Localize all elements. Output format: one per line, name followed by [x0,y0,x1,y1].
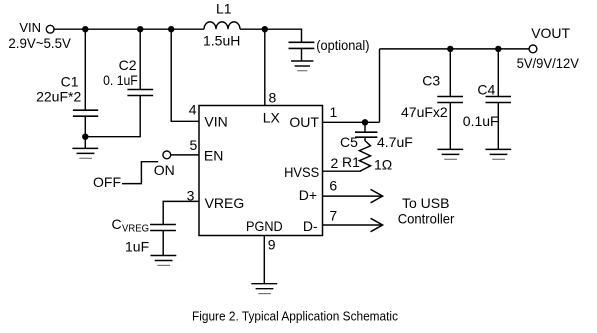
svg-text:1uF: 1uF [125,238,149,254]
wire EN [170,154,199,156]
svg-text:1Ω: 1Ω [374,156,392,172]
svg-text:OFF: OFF [93,174,121,190]
svg-text:VOUT: VOUT [531,25,570,41]
junction rail / C4 [495,46,501,52]
wire L1 to LX node [240,28,265,30]
wire C1 bottom to C2 bottom [85,96,140,137]
svg-text:VREG: VREG [205,195,245,211]
junction LX node [262,26,268,32]
junction OUT / C5 [362,119,368,125]
svg-text:8: 8 [269,89,277,105]
wire rail to C3 [449,49,451,97]
junction C1/C2 bottom [82,134,88,140]
ground C4 [485,149,511,159]
svg-text:5V/9V/12V: 5V/9V/12V [517,55,580,71]
capacitor C5 [355,122,377,137]
capacitor optional [289,42,315,48]
svg-text:9: 9 [268,236,276,252]
wire HVSS pin 2 [323,170,362,172]
wire D- arrow [323,218,383,231]
wire VREG to CVREG [163,201,199,224]
svg-text:0. 1uF: 0. 1uF [103,72,138,88]
svg-text:5: 5 [190,137,198,153]
capacitor C4 [486,97,512,103]
svg-text:C2: C2 [119,57,137,73]
resistor R1 [359,137,370,171]
wire D+ arrow [323,189,383,202]
wire rail to pin 4 [171,29,199,121]
ground CVREG [151,256,177,266]
wire LX drop to pin 8 [264,29,266,105]
wire LX node to optional cap [265,29,302,42]
wire rail to C4 [497,49,499,97]
wire rail to C1 [84,29,86,110]
svg-text:22uF*2: 22uF*2 [36,88,81,104]
wire optional cap to ground [301,48,303,61]
svg-text:R1: R1 [342,154,360,170]
net label VIN 2.9V~5.5V [8,20,71,51]
wire top rail VIN to L1 [53,28,204,30]
wire CVREG to ground [162,231,164,256]
svg-text:VIN: VIN [19,20,41,35]
svg-text:Figure 2. Typical Application: Figure 2. Typical Application Schematic [192,308,398,323]
svg-text:ON: ON [154,162,175,178]
svg-text:VIN: VIN [204,114,227,130]
capacitor C1 [73,110,98,116]
wire OUT pin 1 [323,121,380,123]
svg-text:PGND: PGND [246,218,283,234]
svg-text:VREG: VREG [122,223,149,234]
terminal VOUT [529,45,537,53]
wire OUT riser [379,49,381,122]
net label VOUT 5V/9V/12V [517,25,580,71]
svg-text:3: 3 [187,188,195,204]
svg-text:1.5uH: 1.5uH [203,33,240,49]
terminal VIN [46,25,54,33]
svg-text:2: 2 [331,155,339,171]
svg-text:7: 7 [329,207,337,223]
capacitor C3 [437,97,463,103]
svg-text:HVSS: HVSS [284,164,319,180]
capacitor CVREG [150,225,176,231]
svg-text:C4: C4 [477,81,495,97]
svg-text:1: 1 [330,104,338,120]
wire PGND pin 9 [263,236,265,284]
svg-text:4.7uF: 4.7uF [377,134,413,150]
terminal EN [163,151,171,159]
svg-text:4: 4 [189,101,197,117]
svg-text:C3: C3 [422,73,440,89]
junction top rail / C1 [82,26,88,32]
wire VOUT rail [380,48,530,50]
svg-text:EN: EN [204,148,223,164]
svg-text:L1: L1 [216,0,232,16]
inductor L1 [204,22,240,29]
label To USB Controller [398,195,455,227]
svg-text:OUT: OUT [289,114,319,130]
svg-text:47uFx2: 47uFx2 [401,104,448,120]
label CVREG [112,216,150,234]
ground C1 [72,148,98,158]
svg-text:6: 6 [329,177,337,193]
wire C2 to rail [139,29,141,89]
wire C4 to ground [497,103,499,150]
wire C1 to bottom junction [84,116,86,137]
svg-text:C: C [112,216,122,232]
on/off waveform [122,162,158,184]
svg-text:(optional): (optional) [316,37,369,53]
junction rail / C3 [447,46,453,52]
junction top rail / C2 [137,26,143,32]
svg-text:To USB: To USB [402,195,449,211]
svg-text:Controller: Controller [398,210,455,226]
wire junction to ground [84,137,86,149]
ground PGND [251,284,277,294]
junction top rail / pin4 branch [168,26,174,32]
svg-text:C5: C5 [340,134,358,150]
svg-text:2.9V~5.5V: 2.9V~5.5V [8,35,71,51]
svg-text:C1: C1 [61,74,79,90]
svg-text:0.1uF: 0.1uF [463,113,499,129]
ground optional cap [291,61,313,71]
svg-text:D+: D+ [299,187,317,203]
wire C3 to ground [449,103,451,150]
svg-text:LX: LX [263,109,281,125]
ground C3 [437,149,463,159]
svg-text:D-: D- [303,218,318,234]
IC U1 body [199,106,323,236]
capacitor C2 [127,90,153,96]
